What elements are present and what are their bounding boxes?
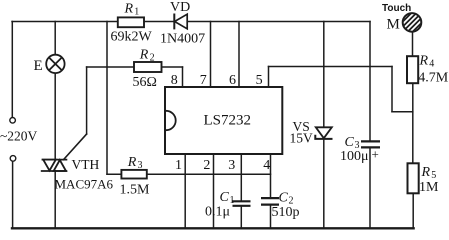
svg-text:69k2W: 69k2W xyxy=(111,30,153,45)
wire pin 5 drop xyxy=(391,67,393,112)
svg-text:VTH: VTH xyxy=(72,157,100,172)
svg-text:8: 8 xyxy=(171,73,178,88)
wire left vertical upper xyxy=(11,22,13,118)
svg-text:VD: VD xyxy=(170,0,190,15)
wire top bus xyxy=(12,21,370,23)
svg-text:1: 1 xyxy=(175,158,182,173)
wire left vertical lower xyxy=(12,161,14,228)
svg-text:4: 4 xyxy=(429,59,434,70)
wire pin 3 to C1 xyxy=(240,154,242,201)
svg-text:Touch: Touch xyxy=(382,3,411,14)
svg-text:R: R xyxy=(124,1,134,16)
svg-text:3: 3 xyxy=(138,160,143,171)
svg-text:C: C xyxy=(220,190,230,205)
svg-text:5: 5 xyxy=(256,73,263,88)
svg-text:1M: 1M xyxy=(419,180,439,195)
svg-text:+: + xyxy=(372,147,379,162)
wire R2 right lead to pin 8 xyxy=(162,66,183,68)
svg-text:C: C xyxy=(345,135,355,150)
svg-text:15V: 15V xyxy=(290,131,314,146)
wire pin 6 riser xyxy=(238,22,240,88)
IC notch xyxy=(166,111,176,130)
svg-text:~220V: ~220V xyxy=(0,129,38,144)
wire touch plate to R4 xyxy=(412,32,414,56)
triac VTH xyxy=(42,160,67,171)
wire triac to bottom bus xyxy=(54,171,56,228)
zener diode VS xyxy=(315,127,332,139)
wire triac gate diagonal xyxy=(64,134,87,160)
wire pin 2 column xyxy=(213,154,215,228)
svg-text:56Ω: 56Ω xyxy=(133,75,157,90)
svg-text:LS7232: LS7232 xyxy=(204,112,252,128)
svg-text:R: R xyxy=(127,155,137,170)
svg-text:1N4007: 1N4007 xyxy=(160,32,205,47)
svg-text:100μ: 100μ xyxy=(340,149,369,164)
capacitor C2 xyxy=(261,198,279,205)
svg-text:0.1μ: 0.1μ xyxy=(205,204,230,219)
wire pin 7 riser xyxy=(210,22,212,88)
capacitor C1 xyxy=(233,201,251,206)
svg-text:3: 3 xyxy=(228,158,235,173)
resistor R2 xyxy=(134,62,162,72)
svg-text:MAC97A6: MAC97A6 xyxy=(55,177,114,192)
wire zener branch upper xyxy=(323,22,325,128)
svg-text:E: E xyxy=(34,58,43,74)
wire R5 to bottom bus xyxy=(412,193,414,228)
wire R3 riser from top bus xyxy=(106,22,108,175)
wire pin 1 column xyxy=(184,154,186,228)
svg-text:R: R xyxy=(139,48,149,63)
svg-text:4.7M: 4.7M xyxy=(418,71,449,86)
wire C3 branch lower xyxy=(369,148,371,229)
wire bottom bus xyxy=(12,227,414,229)
resistor R4 xyxy=(407,56,418,83)
wire C3 branch upper xyxy=(369,22,371,142)
svg-text:6: 6 xyxy=(229,73,236,88)
wire lamp branch upper xyxy=(54,22,56,55)
wire gate to R2 left lead xyxy=(87,66,134,68)
wire pin 8 riser xyxy=(182,67,184,87)
resistor R3 xyxy=(121,170,146,179)
wire gate vertical riser xyxy=(86,67,88,134)
touch plate M circle xyxy=(398,2,430,37)
terminal upper circle xyxy=(10,118,16,124)
svg-text:1.5M: 1.5M xyxy=(120,182,151,197)
svg-text:R: R xyxy=(421,165,431,180)
wire jog to R4/R5 node xyxy=(392,111,413,113)
svg-text:1: 1 xyxy=(134,7,139,18)
svg-text:2: 2 xyxy=(203,158,210,173)
wire pin 5 riser xyxy=(268,67,270,88)
svg-text:7: 7 xyxy=(200,73,207,88)
capacitor C3 xyxy=(361,141,380,147)
wire R4 to R5 xyxy=(412,83,414,163)
op-amp U1 LS7232 IC body xyxy=(165,87,282,154)
svg-text:2: 2 xyxy=(150,53,155,64)
wire pin 5 horizontal xyxy=(269,66,393,68)
resistor R5 xyxy=(408,163,419,193)
wire lamp to triac xyxy=(54,73,56,160)
diode VD xyxy=(174,14,187,30)
svg-text:510p: 510p xyxy=(272,205,300,220)
wire R3 to pin columns xyxy=(147,173,271,175)
svg-text:1: 1 xyxy=(230,195,235,206)
terminal lower circle xyxy=(10,156,16,162)
svg-text:R: R xyxy=(419,54,429,69)
lamp E circle xyxy=(46,55,64,73)
wire C1 to bottom bus xyxy=(240,206,242,228)
wire C2 to bottom bus xyxy=(270,205,272,229)
resistor R1 xyxy=(118,17,144,27)
wire zener branch lower xyxy=(323,139,325,228)
wire R3 left lead xyxy=(107,173,121,175)
svg-text:4: 4 xyxy=(263,158,270,173)
svg-text:M: M xyxy=(387,17,400,33)
wire pin 4 to C2 xyxy=(270,154,272,198)
svg-text:C: C xyxy=(279,191,289,206)
